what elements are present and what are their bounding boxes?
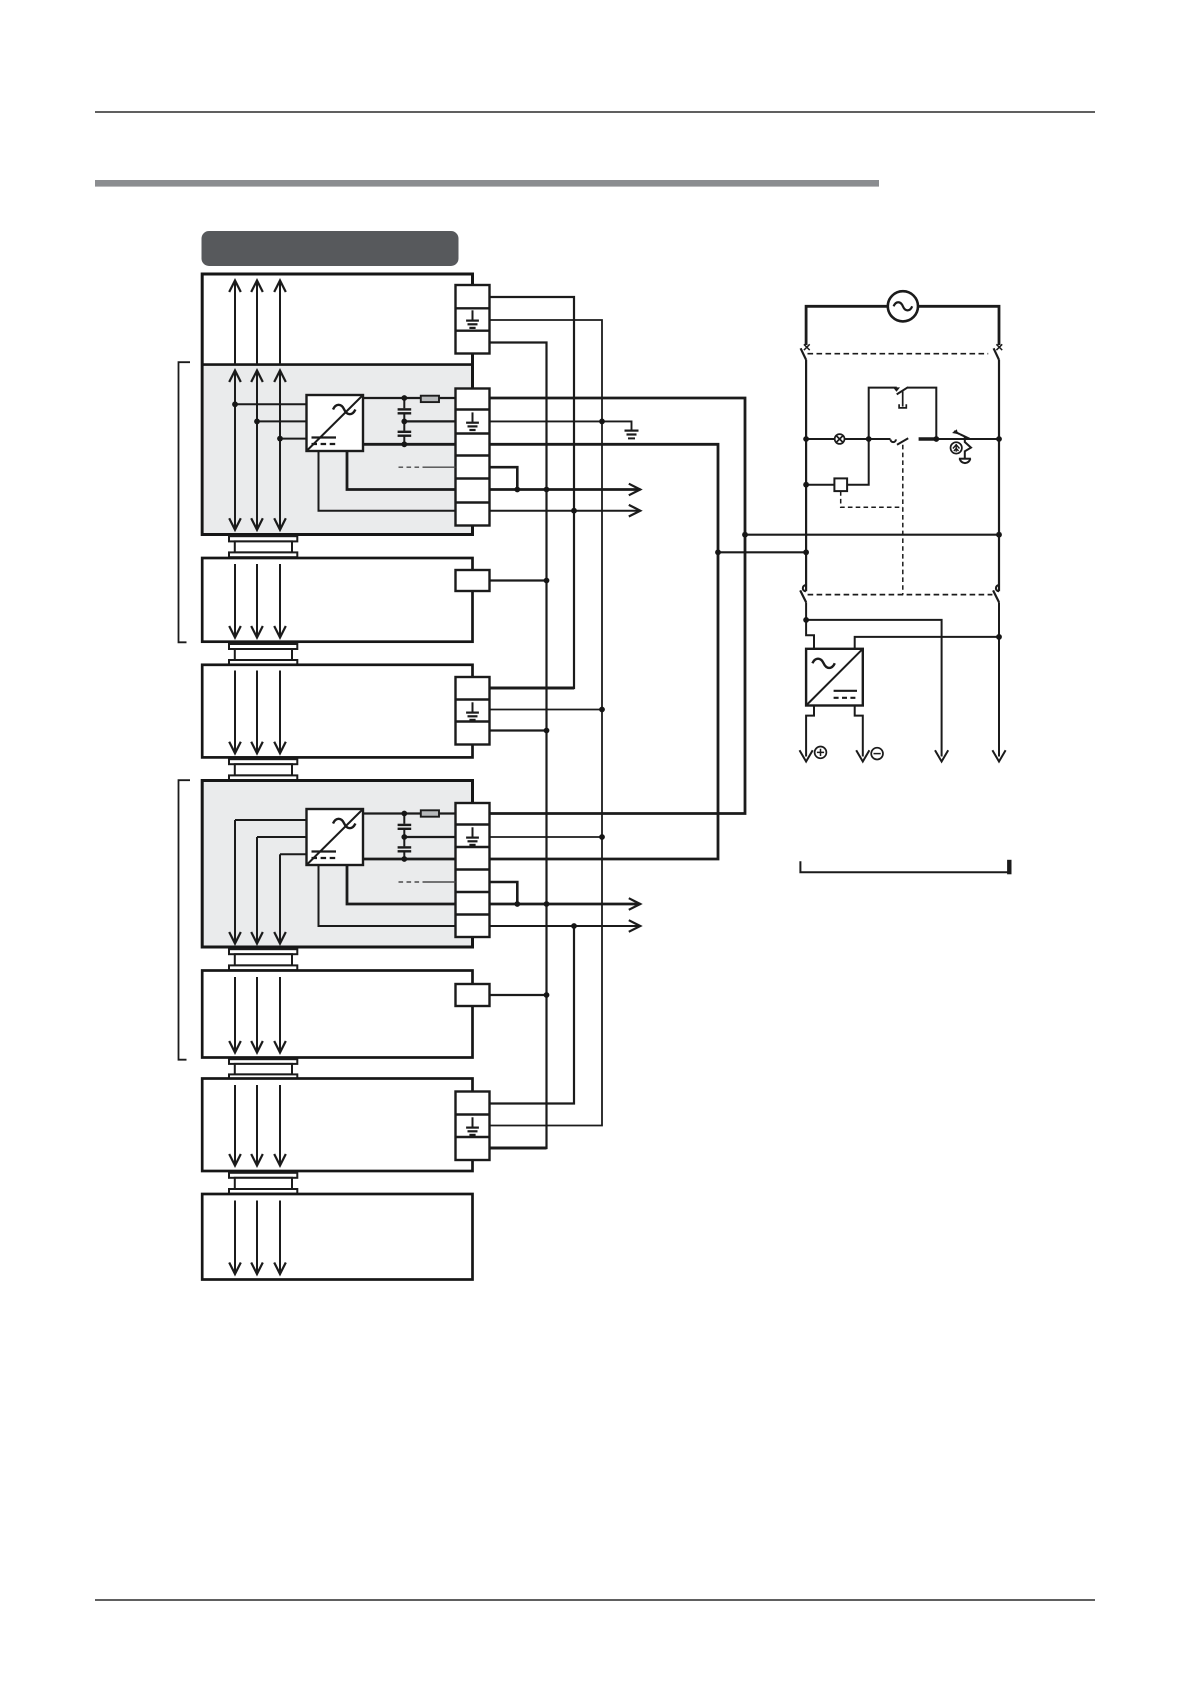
wire X1.1 (L+) to bus V5 and PS circuit: [490, 398, 746, 814]
earth electrode symbol E1: [625, 431, 639, 439]
rack3 backplane arrows (down): [229, 671, 286, 754]
load arrows (4): [800, 750, 1006, 761]
contactor K1 NO contact branch (upper): [869, 388, 937, 439]
surge arrester F4: [953, 430, 971, 463]
rack 1 gray PS segment fill: [204, 366, 471, 533]
earth symbol in X4 cell2: [466, 827, 479, 845]
terminal block X0 (rack0, with PE cell): [456, 285, 490, 354]
K1 main contact on lamp line: [891, 438, 909, 445]
capacitor C4 (lower): [398, 837, 412, 859]
load power supply U3 (AC/DC): [806, 649, 863, 706]
terminal block X2 (rack2): [456, 570, 490, 591]
wire X0.2 (PE) to bus V3: [490, 320, 603, 1126]
K1 actuator: [899, 391, 906, 408]
U1 input wires from backplane arrows: [235, 404, 307, 438]
power supply converter U2 (AC/DC): [307, 809, 364, 865]
wire X1.5 M-rail with arrow to external: [490, 484, 641, 496]
rack 5 frame: [202, 971, 472, 1058]
connector C6: [229, 1173, 297, 1194]
main switch Q1 right pole: [994, 344, 1003, 360]
terminal block X6 (rack6, with PE cell): [456, 1092, 490, 1161]
earth symbol in X3 cell2: [466, 702, 479, 720]
mains phase conductor (left vertical): [805, 360, 807, 592]
Q2 linkage (dashed): [808, 594, 993, 596]
U1 bottom pin to X1 cell5 (M): [347, 451, 456, 490]
rack4 backplane arrows (down, fed from PS wires): [229, 820, 286, 944]
wire from K1 to surge arrester and N: [936, 438, 999, 440]
rack 0+1 outer frame (rack 0 CPU rack with PS): [202, 274, 472, 535]
rack7 backplane arrows (down): [229, 1201, 286, 1275]
mains neutral conductor (right vertical): [998, 360, 1000, 592]
rack0 backplane arrows (up): [229, 281, 286, 365]
wire X1.4 jumper to M-rail: [490, 467, 518, 489]
24V load bracket: [800, 860, 1009, 875]
AC source G1: [888, 291, 918, 321]
U2 feed wires to backplane arrows: [235, 820, 307, 854]
dashed actuator linkage vertical: [902, 445, 904, 595]
main switch Q1 linkage (dashed): [808, 353, 989, 355]
capacitor C2 (lower): [398, 421, 412, 444]
connector C5: [229, 1059, 297, 1079]
rack 3 frame: [202, 665, 472, 758]
connector C3: [229, 759, 297, 780]
wire X1.3 (M) to bus V4: [490, 444, 719, 859]
dashed trip linkage from F3: [841, 491, 903, 507]
wire X5 to bus V1: [490, 994, 547, 996]
capacitor mid-node wire to X4 cell2 (PE): [404, 836, 455, 838]
wire X0.1 to bus V2: [490, 297, 575, 688]
U1 output L+ wire to X1 cell1: [363, 397, 456, 399]
capacitor mid-node wire to X1 cell2 (PE): [404, 420, 455, 422]
rack5 backplane arrows (down): [229, 977, 286, 1053]
rack1 backplane arrows (bidirectional): [229, 371, 286, 530]
rack 7 frame: [202, 1194, 472, 1280]
signal lamp H1 branch wire: [806, 438, 890, 440]
earth symbol in X0 cell2: [466, 310, 479, 328]
bus V2 lower segment to X6.1: [490, 926, 575, 1104]
U1 bottom pin to X1 cell6: [319, 451, 456, 511]
rack 4 frame (2nd PS gray rack): [202, 781, 472, 948]
U3 L+ output to arrow 1: [806, 706, 814, 757]
connector C1 (rack1-rack2 bus link): [229, 536, 297, 557]
rack 6 frame: [202, 1079, 472, 1172]
U2 bottom pin to X4 cell6: [319, 865, 456, 926]
title box: [202, 231, 459, 266]
wire X1.2 (PE) to local earth: [490, 421, 632, 429]
capacitor C3 (upper): [398, 814, 412, 838]
main switch Q1 left pole: [801, 344, 810, 360]
U1 output M wire to X1 cell3: [363, 443, 456, 446]
wire from PS U3 to N vertical: [855, 637, 999, 649]
earth symbol in X1 cell2: [466, 412, 479, 430]
terminal block X1 (rack1 PS, 6 cells): [456, 389, 490, 526]
capacitor node dots: [401, 395, 407, 447]
K1 contact bridge bar: [919, 437, 937, 440]
bus junction dots: [514, 419, 748, 998]
PS circuit junction dots: [803, 436, 1002, 640]
signal lamp H1: [835, 434, 845, 444]
PS isolating switch Q2 right pole: [993, 585, 999, 756]
connector C2: [229, 644, 297, 665]
wire to load arrow 3: [806, 620, 942, 757]
U1 input junction dots: [232, 401, 283, 441]
U2 output M wire to X4 cell3: [363, 858, 456, 861]
rack 0/1 divider: [202, 363, 472, 366]
wire X3.3 to bus V1: [490, 729, 547, 731]
earth symbol in X6 cell2: [466, 1117, 479, 1135]
wire X4.4 jumper to M-rail: [490, 882, 518, 904]
wire X3.2 (PE) to bus V3: [490, 709, 603, 711]
bracket left group 1: [179, 362, 191, 642]
dashed auxiliary wire to X1 cell4: [399, 466, 456, 468]
polarity marker -: [871, 748, 883, 760]
capacitor node dots: [401, 811, 407, 862]
connector C4: [229, 949, 297, 970]
U2 output L+ wire to X4 cell1: [363, 812, 456, 814]
U2 bottom pin to X4 cell5 (M): [347, 865, 456, 904]
terminal block X5 (rack5): [456, 984, 490, 1006]
footer rule: [95, 1599, 1095, 1601]
polarity marker +: [815, 747, 827, 759]
wire X4.6 with arrow to external: [490, 920, 641, 932]
U3 M output to arrow 2: [855, 706, 863, 757]
wire X2 to bus V1: [490, 579, 547, 581]
wire X1.6 with arrow to external: [490, 505, 641, 517]
bracket left group 2: [179, 780, 191, 1059]
rack2 backplane arrows (down): [229, 564, 286, 638]
phase into PS U3: [806, 602, 814, 649]
fuse F1 on L+ wire: [421, 396, 439, 402]
rack6 backplane arrows (down): [229, 1085, 286, 1166]
wire X4.2 (PE) to bus V3: [490, 836, 603, 838]
rack 2 frame: [202, 558, 472, 642]
capacitor C1 (upper): [398, 398, 412, 421]
AC source G1 top feed wires: [806, 306, 999, 345]
PS isolating switch Q2 left pole: [800, 585, 806, 602]
supply line B (N to PS circuit): [718, 551, 806, 553]
dashed auxiliary wire to X4 cell4: [399, 881, 456, 883]
terminal block X3 (rack3, with PE cell): [456, 677, 490, 745]
supply line A (L1 to PS circuit): [745, 534, 999, 536]
K1 upper contact blade: [894, 387, 908, 394]
section heading bar: [95, 180, 879, 187]
fuse F3 branch: [806, 439, 869, 491]
header rule: [95, 111, 1095, 113]
wire X4.5 M-rail with arrow to external: [490, 898, 641, 910]
surge arrester indicator (circle with arrow): [951, 442, 962, 453]
terminal block X4 (rack4 PS, 6 cells): [456, 803, 490, 937]
fuse F2 on L+ wire: [421, 810, 439, 816]
wire X0.3 to bus V1: [490, 343, 547, 1149]
power supply converter U1 (AC/DC): [307, 395, 364, 451]
wire X3.1 to bus V2 (drawn with V2 seg above): [490, 687, 575, 690]
